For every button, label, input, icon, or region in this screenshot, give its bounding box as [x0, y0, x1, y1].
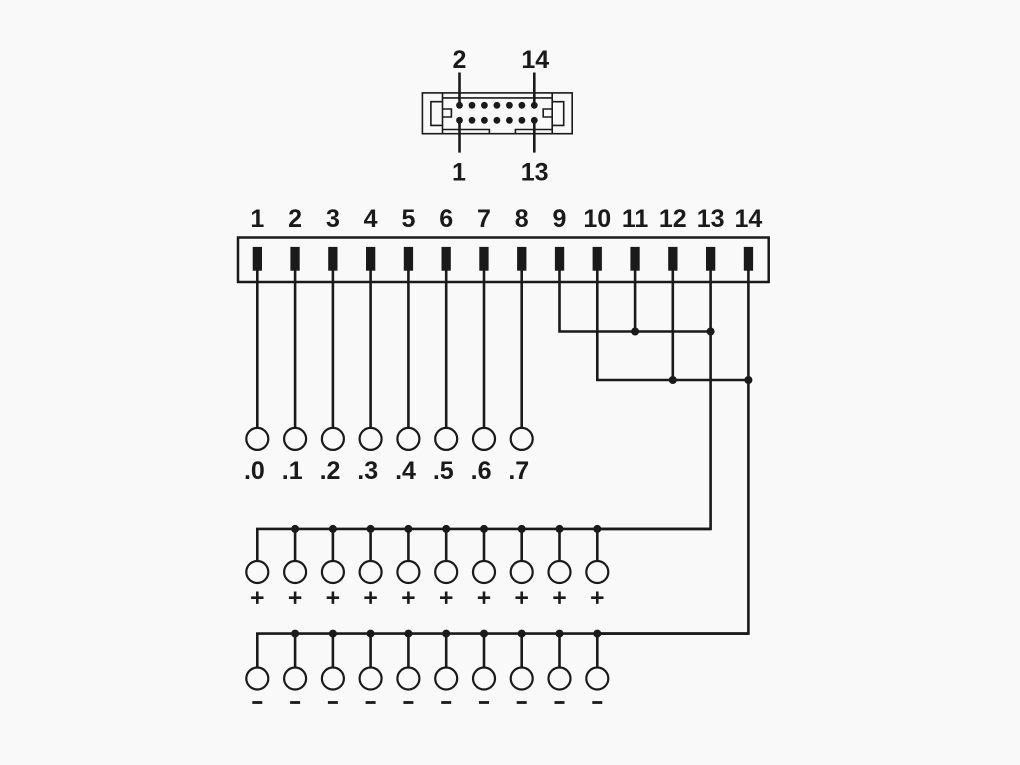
terminal pin 4 [366, 247, 375, 271]
terminal + 3 [322, 561, 344, 583]
svg-text:4: 4 [364, 205, 378, 233]
label - 7 [479, 701, 489, 704]
terminal - 3 [322, 668, 344, 690]
label + 9 [553, 592, 565, 604]
terminal block outline [238, 238, 769, 283]
label - 3 [328, 701, 338, 704]
node - bus junction 2 [291, 630, 299, 638]
wire - stub 8 [520, 634, 523, 668]
node + bus junction 6 [442, 525, 450, 533]
terminal .6 [473, 428, 495, 450]
wire - stub 9 [558, 634, 561, 668]
terminal - 9 [549, 668, 571, 690]
terminal - 8 [511, 668, 533, 690]
terminal pin 13 [706, 247, 715, 271]
label + 5 [402, 592, 414, 604]
wire + stub 5 [407, 529, 410, 561]
wire + stub 10 [596, 529, 599, 561]
wire pin 11 [634, 270, 637, 332]
node pin 12 junction [669, 376, 677, 384]
svg-text:.6: .6 [471, 457, 492, 485]
terminal + 5 [397, 561, 419, 583]
wire + stub 9 [558, 529, 561, 561]
terminal pin 6 [442, 247, 451, 271]
label + 4 [364, 592, 376, 604]
node - bus junction 7 [480, 630, 488, 638]
node - bus junction 5 [404, 630, 412, 638]
terminal + 9 [549, 561, 571, 583]
svg-text:.3: .3 [357, 457, 378, 485]
svg-text:2: 2 [453, 46, 467, 74]
wire pin 3 to .2 [332, 270, 335, 428]
svg-text:.1: .1 [282, 457, 303, 485]
terminal - 2 [284, 668, 306, 690]
svg-text:.0: .0 [244, 457, 265, 485]
wire + stub 2 [294, 529, 297, 561]
svg-text:9: 9 [553, 205, 567, 233]
label - 8 [517, 701, 527, 704]
terminal - 6 [435, 668, 457, 690]
node + bus junction 10 [593, 525, 601, 533]
wire pin 2 to .1 [294, 270, 297, 428]
wire + stub 7 [483, 529, 486, 561]
terminal + 6 [435, 561, 457, 583]
terminal + 4 [360, 561, 382, 583]
svg-text:14: 14 [521, 46, 549, 74]
wire - stub 6 [445, 634, 448, 668]
label - 1 [252, 701, 262, 704]
svg-text:.7: .7 [508, 457, 529, 485]
terminal - 10 [586, 668, 608, 690]
node pin 14 junction [744, 376, 752, 384]
node + bus junction 5 [404, 525, 412, 533]
terminal pin 9 [555, 247, 564, 271]
wire + stub 3 [332, 529, 335, 561]
label - 5 [403, 701, 413, 704]
svg-text:12: 12 [659, 205, 687, 233]
svg-text:8: 8 [515, 205, 529, 233]
label - 9 [555, 701, 565, 704]
label - 6 [441, 701, 451, 704]
node + bus junction 2 [291, 525, 299, 533]
svg-text:2: 2 [288, 205, 302, 233]
terminal - 4 [360, 668, 382, 690]
terminal + 1 [246, 561, 268, 583]
wire pin 9 [560, 270, 711, 332]
wire connector pin 1 [458, 120, 461, 152]
svg-text:.4: .4 [395, 457, 416, 485]
node - bus junction 6 [442, 630, 450, 638]
terminal pin 8 [517, 247, 526, 271]
node + bus junction 9 [556, 525, 564, 533]
terminal - 5 [397, 668, 419, 690]
terminal - 1 [246, 668, 268, 690]
svg-text:.5: .5 [433, 457, 454, 485]
svg-text:14: 14 [734, 205, 762, 233]
node pin 13 junction [707, 328, 715, 336]
terminal .1 [284, 428, 306, 450]
wire pin 8 to .7 [520, 270, 523, 428]
terminal pin 1 [253, 247, 262, 271]
terminal + 2 [284, 561, 306, 583]
wire + stub 8 [520, 529, 523, 561]
connector X1 body [422, 93, 572, 134]
svg-text:.2: .2 [320, 457, 341, 485]
svg-text:3: 3 [326, 205, 340, 233]
label + 1 [251, 592, 263, 604]
terminal pin 10 [593, 247, 602, 271]
node - bus junction 8 [518, 630, 526, 638]
node - bus junction 3 [329, 630, 337, 638]
terminal .2 [322, 428, 344, 450]
node - bus junction 10 [593, 630, 601, 638]
wire - stub 7 [483, 634, 486, 668]
terminal .0 [246, 428, 268, 450]
label + 3 [327, 592, 339, 604]
svg-text:1: 1 [452, 158, 466, 186]
label + 2 [289, 592, 301, 604]
svg-text:11: 11 [622, 205, 649, 233]
wire - stub 5 [407, 634, 410, 668]
wire pin 5 to .4 [407, 270, 410, 428]
wire pin 1 to .0 [256, 270, 259, 428]
terminal pin 7 [479, 247, 488, 271]
node - bus junction 4 [367, 630, 375, 638]
wire pin 6 to .5 [445, 270, 448, 428]
terminal + 8 [511, 561, 533, 583]
wire pin 4 to .3 [369, 270, 372, 428]
svg-text:7: 7 [477, 205, 491, 233]
terminal .3 [360, 428, 382, 450]
wire pin 14 to - bus [597, 270, 748, 634]
wire - stub 3 [332, 634, 335, 668]
terminal pin 12 [668, 247, 677, 271]
terminal + 7 [473, 561, 495, 583]
terminal .4 [397, 428, 419, 450]
terminal pin 11 [630, 247, 639, 271]
label + 7 [478, 592, 490, 604]
label - 4 [366, 701, 376, 704]
label + 10 [591, 592, 603, 604]
wire connector pin 2 [458, 73, 461, 106]
svg-text:1: 1 [250, 205, 264, 233]
svg-text:10: 10 [583, 205, 611, 233]
node + bus junction 8 [518, 525, 526, 533]
wire pin 7 to .6 [483, 270, 486, 428]
terminal + 10 [586, 561, 608, 583]
node + bus junction 7 [480, 525, 488, 533]
node + bus junction 3 [329, 525, 337, 533]
node - bus junction 9 [556, 630, 564, 638]
terminal pin 3 [328, 247, 337, 271]
label - 10 [592, 701, 602, 704]
svg-text:5: 5 [401, 205, 415, 233]
terminal - 7 [473, 668, 495, 690]
svg-text:6: 6 [439, 205, 453, 233]
svg-text:13: 13 [697, 205, 725, 233]
label + 8 [516, 592, 528, 604]
terminal .5 [435, 428, 457, 450]
terminal pin 14 [744, 247, 753, 271]
wire connector pin 14 [533, 73, 536, 106]
wire + bus [257, 529, 710, 561]
wire - stub 10 [596, 634, 599, 668]
wire - stub 4 [369, 634, 372, 668]
wire + stub 4 [369, 529, 372, 561]
svg-text:13: 13 [521, 158, 549, 186]
wire - bus [257, 634, 748, 668]
terminal pin 5 [404, 247, 413, 271]
label + 6 [440, 592, 452, 604]
node + bus junction 4 [367, 525, 375, 533]
wire pin 10 [597, 270, 748, 380]
node pin 11 junction [631, 328, 639, 336]
wire + stub 6 [445, 529, 448, 561]
wire pin 13 to + bus [597, 270, 710, 529]
label - 2 [290, 701, 300, 704]
terminal pin 2 [290, 247, 299, 271]
connector X1 contact dots [456, 102, 538, 124]
wire connector pin 13 [533, 120, 536, 152]
wire - stub 2 [294, 634, 297, 668]
terminal .7 [511, 428, 533, 450]
wire pin 12 [671, 270, 674, 380]
